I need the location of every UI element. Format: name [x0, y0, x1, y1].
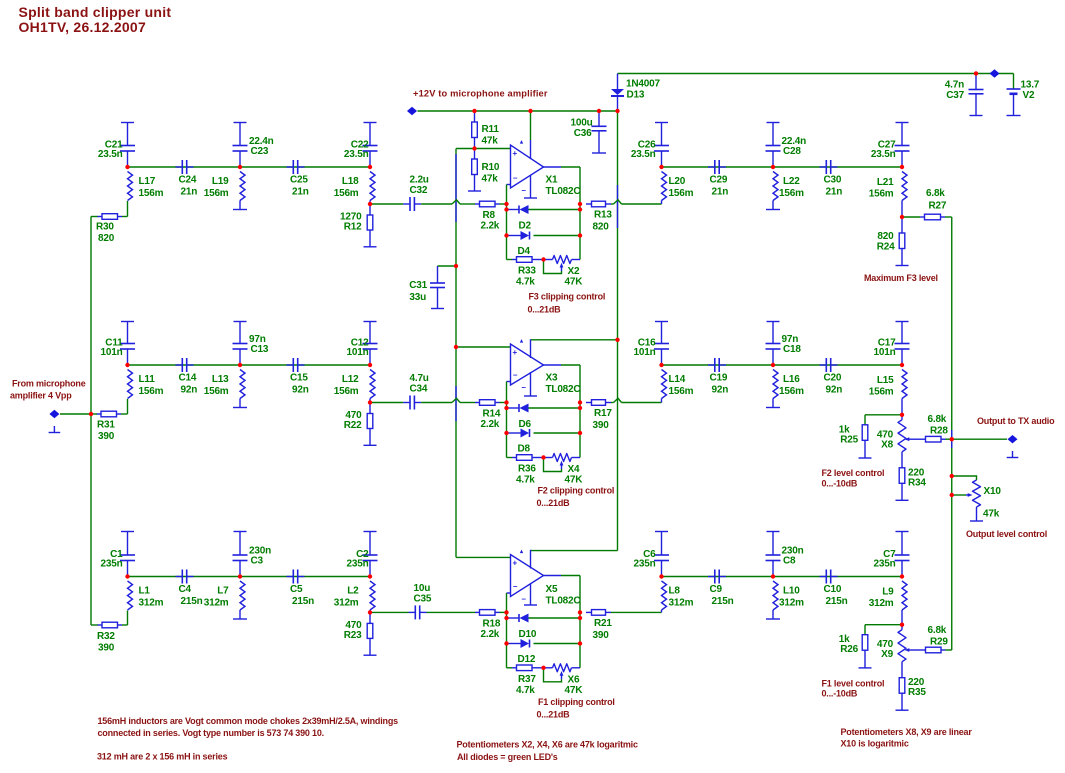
node +13.7V — [990, 69, 1000, 77]
junction right node D4 — [578, 233, 582, 237]
label R8 — [481, 210, 500, 232]
label C8 — [782, 546, 804, 567]
capacitor C23 — [233, 123, 248, 168]
wire R32 to L1 — [122, 624, 128, 626]
wire band1 row2 a — [370, 203, 403, 205]
capacitor C25 — [287, 160, 305, 174]
svg-text:D6: D6 — [519, 419, 532, 430]
label F2 clipping control — [537, 486, 615, 509]
capacitor C31 — [430, 266, 445, 309]
inductor L13 — [240, 370, 245, 399]
junction C1/L1 — [125, 574, 129, 578]
resistor R35 — [899, 678, 905, 694]
label F1 level control — [822, 678, 885, 698]
svg-text:C15: C15 — [290, 373, 308, 384]
svg-text:C34: C34 — [410, 384, 428, 395]
ground R24 — [896, 249, 909, 266]
svg-text:X3: X3 — [546, 373, 558, 384]
label L2 — [334, 586, 359, 609]
svg-text:Potentiometers X8, X9 are line: Potentiometers X8, X9 are linear — [841, 727, 973, 737]
capacitor C5 — [287, 570, 305, 584]
wire L20 lead — [661, 201, 663, 205]
label C12 — [347, 338, 370, 359]
label F3 clipping control — [528, 292, 606, 315]
wire R36 left — [507, 457, 513, 459]
ground R35 — [896, 693, 909, 710]
label L21 — [869, 177, 894, 200]
wiper X8 — [905, 437, 922, 441]
svg-text:C29: C29 — [710, 175, 728, 186]
ground R12 — [364, 230, 377, 247]
svg-text:C4: C4 — [179, 584, 192, 595]
svg-text:R17: R17 — [594, 408, 612, 419]
svg-text:Maximum F3 level: Maximum F3 level — [864, 273, 938, 283]
svg-text:L16: L16 — [783, 374, 800, 385]
resistor R32 — [98, 622, 123, 628]
capacitor C36 — [592, 111, 607, 153]
wire band2 left filter — [128, 364, 371, 366]
wire bias to X5 +in — [456, 556, 511, 558]
wire clipper right node — [579, 576, 581, 668]
label R33 — [516, 266, 536, 288]
label L9 — [869, 587, 894, 610]
svg-text:R29: R29 — [930, 637, 948, 648]
junction C2/L2 — [368, 574, 372, 578]
svg-text:215n: 215n — [181, 596, 203, 607]
wire R29 to bus — [946, 649, 952, 651]
svg-text:C5: C5 — [290, 584, 303, 595]
diode D12 — [521, 639, 530, 648]
label C3 — [249, 546, 271, 567]
svg-text:amplifier 4 Vpp: amplifier 4 Vpp — [10, 391, 72, 401]
svg-text:156m: 156m — [139, 386, 164, 397]
svg-text:L1: L1 — [139, 586, 151, 597]
wire R37 right — [537, 667, 544, 669]
junction left node D8 — [504, 431, 508, 435]
wire L22 lead — [772, 201, 774, 210]
capacitor C27 — [895, 123, 910, 168]
resistor R30 — [98, 214, 123, 220]
wire clipper left node — [506, 403, 508, 458]
svg-text:2.2u: 2.2u — [410, 175, 429, 186]
wire X1 -in stub — [507, 185, 511, 205]
svg-text:C32: C32 — [410, 185, 428, 196]
terminal L16 ground bar — [766, 407, 780, 409]
capacitor C1 — [120, 532, 135, 577]
label L22 — [779, 176, 804, 199]
wire X9 top lead — [901, 625, 903, 630]
wire bus to R30 — [91, 216, 98, 218]
svg-text:Potentiometers X2, X4, X6 are: Potentiometers X2, X4, X6 are 47k logari… — [457, 740, 638, 750]
svg-text:L2: L2 — [347, 586, 359, 597]
inductor L20 — [662, 172, 667, 201]
wire R13 lead to hop — [611, 203, 614, 205]
wire L19 lead — [239, 201, 241, 210]
wire L17 lead — [127, 201, 129, 217]
svg-text:312m: 312m — [334, 598, 359, 609]
svg-text:312m: 312m — [204, 598, 229, 609]
junction input bus — [89, 412, 93, 416]
wire pot lead left — [544, 457, 553, 459]
svg-text:21n: 21n — [826, 187, 843, 198]
svg-text:156m: 156m — [204, 188, 229, 199]
diode D2 — [519, 205, 529, 214]
wire pot lead left — [544, 667, 553, 669]
resistor R13 — [586, 201, 611, 207]
capacitor C32 — [403, 197, 421, 211]
label C2 — [347, 549, 370, 570]
wire band1 row2 b — [421, 203, 452, 205]
label L12 — [334, 374, 359, 397]
resistor R26 — [862, 635, 868, 651]
svg-text:R36: R36 — [518, 464, 536, 475]
label R31 — [97, 420, 115, 443]
wiper X4 — [544, 460, 564, 472]
svg-text:R23: R23 — [344, 630, 362, 641]
label R18 — [481, 618, 501, 640]
wire +13.7V feed — [618, 73, 1014, 75]
svg-text:D13: D13 — [627, 90, 645, 101]
wire band2 row2 b — [421, 402, 452, 404]
svg-text:F2 level control: F2 level control — [822, 468, 885, 478]
svg-text:C37: C37 — [946, 90, 964, 101]
wiper X2 — [544, 262, 564, 274]
svg-text:4.7k: 4.7k — [516, 277, 535, 288]
wire L13 lead — [239, 399, 241, 408]
junction L18/R12 — [368, 202, 372, 206]
svg-text:23.5n: 23.5n — [631, 149, 656, 160]
capacitor C9 — [708, 570, 726, 584]
svg-text:C24: C24 — [179, 175, 197, 186]
svg-text:L12: L12 — [342, 374, 359, 385]
wire R37 left — [507, 667, 513, 669]
ground output — [1007, 451, 1019, 458]
label R12 — [340, 212, 362, 233]
svg-text:L18: L18 — [342, 176, 359, 187]
capacitor C28 — [766, 123, 781, 168]
wire bias vertical pin segment — [455, 154, 457, 222]
junction C28/L22 — [771, 165, 775, 169]
svg-text:R32: R32 — [97, 631, 115, 642]
junction bias C31 — [454, 264, 458, 268]
wire V2 drop — [1013, 74, 1015, 90]
label C6 — [634, 549, 657, 570]
wire X1 V+ wire — [530, 111, 532, 140]
wire L11 lead — [127, 399, 129, 414]
label C25 — [290, 175, 309, 198]
label L13 — [204, 374, 229, 397]
capacitor C2 — [363, 532, 378, 577]
inductor L21 — [902, 172, 907, 201]
wire band2 right filter — [662, 364, 903, 366]
svg-text:L7: L7 — [217, 586, 229, 597]
wire R26 drop — [864, 625, 866, 635]
resistor R28 — [921, 436, 946, 442]
capacitor C7 — [895, 532, 910, 577]
svg-text:C35: C35 — [414, 593, 432, 604]
label R30 — [96, 222, 115, 245]
svg-text:R12: R12 — [344, 222, 362, 233]
wire clipper right node — [579, 365, 581, 458]
svg-text:F2 clipping control: F2 clipping control — [538, 486, 615, 496]
capacitor C20 — [820, 358, 838, 372]
junction R37/X6 — [541, 666, 545, 670]
svg-text:R30: R30 — [96, 222, 114, 233]
label C22 — [344, 140, 369, 161]
svg-text:R8: R8 — [483, 210, 496, 221]
wire clipper right node — [579, 167, 581, 260]
label X8 — [877, 429, 894, 450]
junction C6/L8 — [659, 574, 663, 578]
svg-text:92n: 92n — [826, 385, 843, 396]
junction C12/L12 — [368, 363, 372, 367]
svg-text:92n: 92n — [181, 385, 198, 396]
ground R34 — [896, 483, 909, 500]
label L1 — [139, 586, 164, 609]
wire L7 lead — [239, 610, 241, 619]
svg-text:6.8k: 6.8k — [928, 625, 947, 636]
junction L15 output node — [900, 413, 904, 417]
svg-text:820: 820 — [877, 231, 894, 242]
label F2 level control — [822, 468, 885, 488]
junction R33/X2 — [541, 257, 545, 261]
label R26 — [839, 634, 859, 655]
svg-text:4.7k: 4.7k — [516, 475, 535, 486]
capacitor C10 — [820, 570, 838, 584]
label C36 — [571, 118, 593, 140]
inductor L17 — [128, 172, 133, 201]
wire D12 anode — [507, 643, 521, 645]
svg-text:–: – — [522, 383, 527, 392]
svg-text:X10 is logaritmic: X10 is logaritmic — [841, 739, 909, 749]
svg-text:+: + — [513, 149, 518, 158]
inductor L22 — [773, 172, 778, 201]
wire +12V rail — [418, 110, 618, 112]
svg-text:R25: R25 — [840, 434, 858, 445]
resistor R31 — [97, 411, 122, 417]
node input from microphone amplifier — [49, 410, 59, 418]
inductor L8 — [662, 581, 667, 610]
label C5 — [290, 584, 314, 607]
wire R36 right — [537, 457, 544, 459]
svg-text:156m: 156m — [139, 188, 164, 199]
wire pot lead left — [544, 259, 553, 261]
junction L9 output node — [900, 623, 904, 627]
capacitor C26 — [654, 123, 669, 168]
svg-text:4.7n: 4.7n — [945, 80, 964, 91]
junction left node D10 — [504, 616, 508, 620]
capacitor C13 — [233, 322, 248, 366]
diode D6 — [519, 404, 529, 413]
svg-text:L10: L10 — [783, 586, 800, 597]
svg-text:47k: 47k — [983, 509, 1000, 520]
capacitor C12 — [363, 322, 378, 366]
junction C16/L14 — [659, 363, 663, 367]
label X5 — [546, 584, 581, 607]
label R10 — [482, 162, 500, 185]
wire C31 tap — [438, 265, 457, 267]
wire R25 drop — [864, 415, 866, 425]
capacitor C22 — [363, 123, 378, 168]
svg-text:R11: R11 — [482, 124, 500, 135]
wire input — [60, 413, 91, 415]
resistor R12 — [367, 204, 373, 230]
svg-text:47k: 47k — [482, 174, 499, 185]
wire X3 V+ tap — [531, 339, 618, 341]
wire band1 row2 c — [460, 203, 475, 205]
svg-text:+: + — [513, 559, 518, 568]
inductor L1 — [128, 581, 133, 610]
terminal L22 ground bar — [766, 209, 780, 211]
inductor L7 — [240, 581, 245, 610]
svg-text:820: 820 — [98, 233, 115, 244]
wire bus to R31 — [91, 413, 97, 415]
svg-text:0...-10dB: 0...-10dB — [822, 689, 858, 699]
label R37 — [516, 674, 536, 696]
svg-text:92n: 92n — [712, 385, 729, 396]
potentiometer X4 — [553, 454, 572, 462]
svg-text:C18: C18 — [783, 344, 801, 355]
junction C7/L9 — [900, 574, 904, 578]
resistor R33 — [512, 257, 537, 263]
wire band3 right filter — [662, 576, 903, 578]
svg-text:235n: 235n — [634, 559, 656, 570]
label C28 — [782, 136, 807, 157]
svg-text:X4: X4 — [568, 464, 580, 475]
wire X1 output — [544, 166, 562, 168]
ground X3 V- — [524, 372, 537, 396]
svg-text:C20: C20 — [824, 373, 842, 384]
junction right node R17 — [578, 400, 582, 404]
wire band1 right filter — [662, 166, 903, 168]
wire X8 bottom lead — [901, 452, 903, 468]
svg-text:TL082C: TL082C — [546, 384, 581, 395]
capacitor C35 — [409, 605, 427, 619]
resistor R24 — [899, 217, 905, 249]
junction C3/L7 — [238, 574, 242, 578]
svg-text:R22: R22 — [344, 420, 362, 431]
svg-text:R35: R35 — [908, 687, 926, 698]
label C4 — [179, 584, 203, 607]
inductor L16 — [773, 370, 778, 399]
svg-text:▴: ▴ — [519, 339, 524, 345]
inductor L19 — [240, 172, 245, 201]
wire L2 lead — [369, 610, 371, 612]
svg-text:C13: C13 — [251, 344, 269, 355]
svg-text:–: – — [513, 582, 518, 591]
svg-text:R10: R10 — [482, 162, 500, 173]
junction L12/R22 — [368, 400, 372, 404]
inductor L2 — [370, 581, 375, 610]
svg-text:C14: C14 — [179, 373, 197, 384]
junction right node D10 — [578, 616, 582, 620]
wire X3 -in stub — [507, 382, 511, 403]
wire R33 left — [507, 259, 513, 261]
svg-text:X5: X5 — [546, 584, 558, 595]
label R14 — [481, 409, 501, 431]
wire hop band1 over +12V — [614, 200, 622, 204]
wire L8 lead — [661, 610, 663, 612]
label X6 — [565, 674, 584, 696]
junction right node D6 — [578, 406, 582, 410]
svg-text:101n: 101n — [634, 347, 656, 358]
svg-text:R13: R13 — [594, 210, 612, 221]
svg-text:From microphone: From microphone — [12, 379, 86, 389]
wire junction to R26 — [865, 624, 902, 626]
inductor L14 — [662, 370, 667, 399]
svg-text:156m: 156m — [869, 387, 894, 398]
wire D4 anode — [507, 235, 521, 237]
svg-text:▴: ▴ — [519, 140, 524, 146]
junction left node D4 — [504, 233, 508, 237]
svg-text:R18: R18 — [483, 618, 501, 629]
svg-text:–: – — [513, 371, 518, 380]
inductor L15 — [902, 370, 907, 399]
label C17 — [874, 338, 897, 359]
wire output bus pin segment — [951, 430, 953, 448]
resistor R22 — [367, 403, 373, 429]
junction left node R8 — [504, 202, 508, 206]
wire clipper left node — [506, 204, 508, 260]
label C21 — [98, 140, 123, 161]
wire output to corner — [561, 166, 580, 168]
wire X8 top lead — [901, 415, 903, 420]
capacitor C8 — [766, 532, 781, 577]
resistor R27 — [920, 214, 945, 220]
label R29 — [928, 625, 949, 648]
svg-text:X8: X8 — [881, 439, 893, 450]
label C32 — [410, 175, 429, 197]
junction R36/X4 — [541, 455, 545, 459]
svg-text:23.5n: 23.5n — [871, 149, 896, 160]
svg-text:0...-10dB: 0...-10dB — [822, 478, 858, 488]
label C10 — [824, 584, 848, 607]
label L20 — [669, 176, 694, 199]
label L19 — [204, 176, 229, 199]
resistor R21 — [586, 610, 611, 616]
label X4 — [565, 464, 584, 486]
wire X5 V+ pin — [530, 550, 532, 569]
wire R13 to right filter — [622, 203, 662, 205]
svg-text:L17: L17 — [139, 176, 156, 187]
wire D10 anode — [507, 617, 520, 619]
capacitor C24 — [176, 160, 194, 174]
svg-text:TL082C: TL082C — [546, 596, 581, 607]
junction bus X10 top — [950, 474, 954, 478]
svg-text:C19: C19 — [710, 373, 728, 384]
op-amp X5 — [511, 549, 544, 604]
capacitor C21 — [120, 123, 135, 168]
ground R10 — [468, 175, 481, 192]
label R27 — [926, 188, 947, 212]
wire band3 row2 a — [370, 611, 409, 613]
junction C26/L20 — [659, 165, 663, 169]
junction C11/L11 — [125, 363, 129, 367]
svg-text:R26: R26 — [840, 644, 858, 655]
svg-text:L8: L8 — [669, 586, 681, 597]
potentiometer X9 — [898, 630, 906, 662]
label C13 — [249, 334, 269, 355]
label R17 — [593, 408, 613, 431]
label R13 — [593, 210, 613, 233]
label L16 — [779, 374, 804, 397]
label R25 — [839, 424, 859, 445]
wire R30 to L17 — [122, 216, 128, 218]
inductor L9 — [902, 581, 907, 610]
wire bias vertical pin segment 2 — [455, 386, 457, 421]
diode D10 — [519, 614, 529, 623]
svg-text:+12V to microphone amplifier: +12V to microphone amplifier — [413, 89, 548, 99]
